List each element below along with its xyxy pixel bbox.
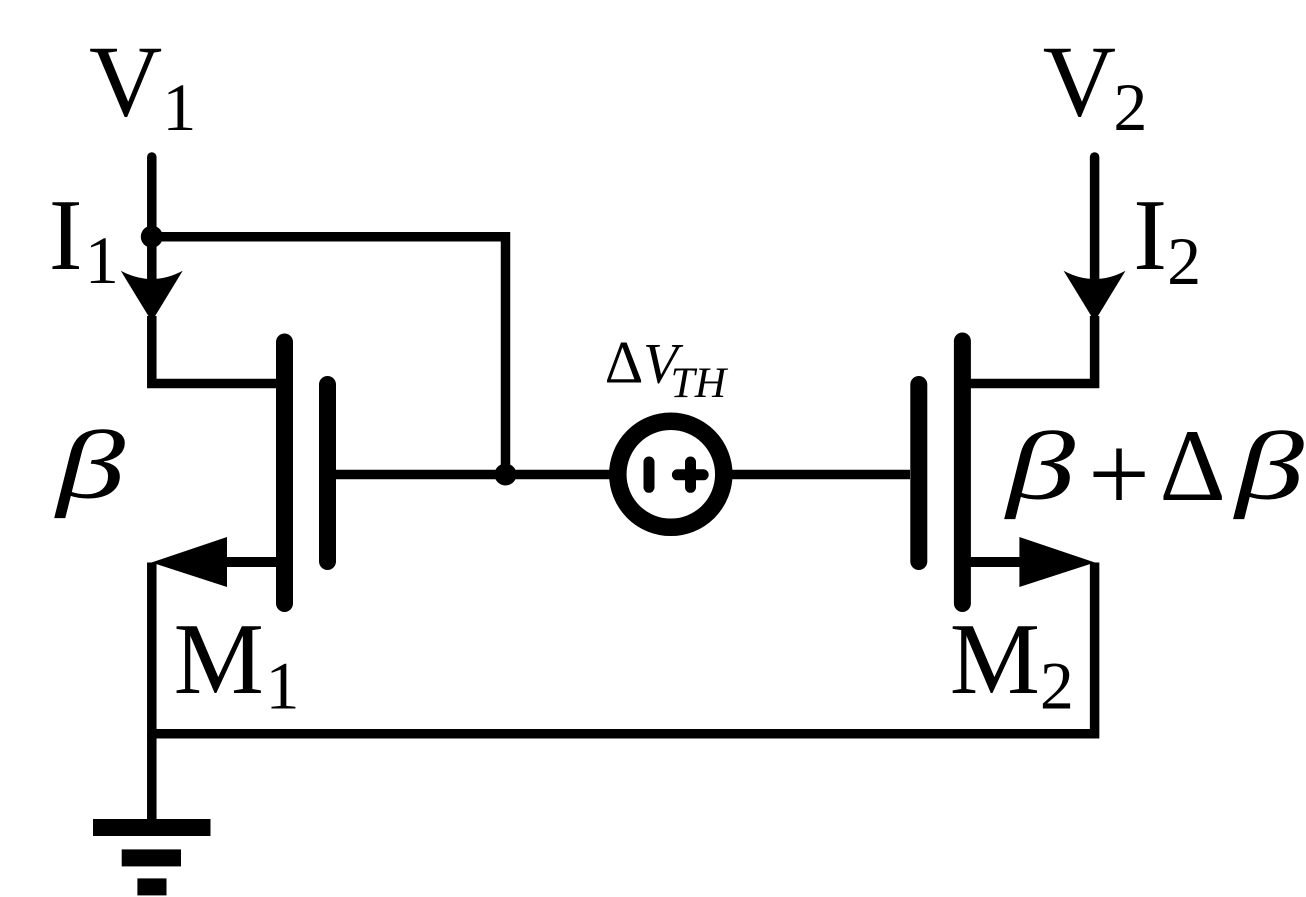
ground symbol bar 2 [122,849,181,866]
transistor M1 channel bar [276,342,293,604]
svg-text:1: 1 [266,648,300,724]
wire M1 source lead [222,557,287,567]
svg-text:Δ: Δ [605,330,644,396]
voltage source minus terminal bar [644,462,655,487]
svg-text:1: 1 [85,222,119,298]
ground symbol bar 3 [137,878,166,895]
svg-text:Δ: Δ [1160,409,1226,523]
ground symbol bar 1 [93,819,211,836]
arrow I1 current arrowhead [121,271,183,322]
wire I1 arrow to M1 drain [152,316,285,384]
node A junction dot (V1/feedback) [141,226,163,248]
svg-text:β: β [1233,412,1305,519]
label beta (M1) [54,411,126,518]
svg-text:β: β [54,411,126,518]
svg-text:I: I [1133,179,1167,291]
wire I2 arrow to M2 drain [962,316,1094,384]
wire M1 gate lead [328,470,613,480]
svg-text:V: V [89,26,162,138]
wire gate to VTH source [731,470,910,480]
svg-text:1: 1 [162,69,196,145]
wire drain-gate feedback (top horizontal + vertical to gate) [152,237,506,475]
wire M2 source lead [960,557,1024,567]
svg-text:TH: TH [671,359,729,407]
voltage source ΔVTH circle [618,421,724,527]
label beta+delta-beta (M2): beta [1004,412,1076,519]
transistor M1 gate bar [319,385,336,562]
svg-text:+: + [1088,413,1150,535]
svg-text:I: I [49,179,83,291]
transistor M2 gate bar [910,385,927,562]
transistor M2 channel bar [954,341,971,604]
svg-text:M: M [950,603,1040,715]
svg-text:β: β [1004,412,1076,519]
wire V2 stub [1090,157,1100,286]
voltage source plus sign [677,462,703,487]
label beta+delta-beta: beta [1233,412,1305,519]
wire ground stem [147,734,157,821]
svg-text:2: 2 [1113,69,1147,145]
svg-text:2: 2 [1040,648,1074,724]
svg-text:2: 2 [1167,223,1201,299]
svg-text:M: M [174,603,264,715]
node B junction dot (gate wire) [495,464,517,486]
wire V1 stub [147,157,157,241]
svg-text:V: V [1043,26,1116,138]
arrow M1 source arrowhead [152,537,228,587]
wire source bus (M1 source, bottom rail, M2 source) [152,563,1095,734]
wire node to I1 arrow [147,237,157,286]
arrow M2 source arrowhead [1019,537,1095,587]
arrow I2 current arrowhead [1064,271,1126,322]
